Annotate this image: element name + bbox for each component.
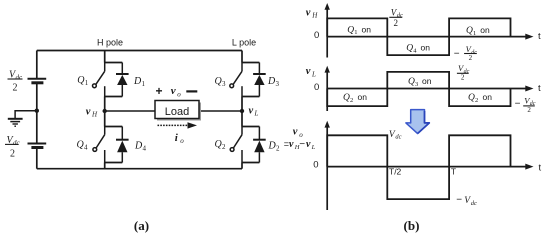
wire H split rail top bbox=[105, 62, 123, 64]
label Q1 on (first) bbox=[347, 24, 371, 36]
label Vdc (vo plot) bbox=[389, 130, 402, 141]
waveform trace vo bbox=[327, 135, 510, 199]
svg-text:T: T bbox=[451, 166, 456, 176]
svg-text:3: 3 bbox=[276, 80, 280, 88]
svg-text:on: on bbox=[362, 24, 372, 34]
axis y (vL plot) bbox=[325, 66, 330, 111]
wire vH to load bbox=[105, 110, 155, 112]
svg-text:H: H bbox=[91, 110, 98, 118]
label D4 bbox=[134, 141, 147, 153]
svg-text:on: on bbox=[483, 92, 493, 102]
diode D2 bbox=[253, 127, 266, 163]
label Q1 on (second) bbox=[466, 25, 490, 37]
wire H pair1 bottom rail bbox=[105, 96, 123, 98]
node vL bbox=[240, 109, 244, 113]
label Vdc/2 (vL plot) bbox=[457, 63, 470, 81]
label vL bbox=[249, 106, 259, 118]
label = vH - vL bbox=[284, 139, 316, 151]
svg-text:on: on bbox=[421, 43, 431, 53]
label D3 bbox=[267, 76, 280, 88]
svg-text:dc: dc bbox=[395, 134, 401, 141]
wire H pair2 top rail bbox=[105, 126, 123, 128]
wire H mid bbox=[104, 97, 106, 127]
axis t (vL plot) bbox=[327, 86, 533, 92]
waveform trace vL bbox=[327, 72, 510, 106]
svg-text:v: v bbox=[86, 106, 91, 117]
label Q3 bbox=[215, 76, 227, 88]
svg-text:−: − bbox=[515, 98, 521, 109]
wire H drop to bus bbox=[104, 163, 106, 169]
svg-text:o: o bbox=[177, 90, 181, 98]
svg-text:T/2: T/2 bbox=[389, 166, 402, 176]
switch Q2 bbox=[230, 127, 242, 163]
diode D4 bbox=[116, 127, 129, 163]
label Q3 on bbox=[408, 76, 432, 88]
svg-text:2: 2 bbox=[469, 54, 473, 62]
svg-text:+: + bbox=[155, 84, 162, 98]
label Q4 on bbox=[406, 43, 430, 55]
arrow io (dashed) bbox=[158, 122, 198, 128]
label Vdc/2 (B2) bbox=[5, 135, 21, 159]
svg-text:(a): (a) bbox=[134, 218, 149, 233]
svg-text:1: 1 bbox=[142, 80, 146, 88]
label D1 bbox=[133, 76, 146, 88]
svg-text:3: 3 bbox=[222, 80, 226, 88]
label D2 bbox=[268, 141, 281, 153]
svg-text:L pole: L pole bbox=[232, 38, 256, 48]
svg-text:2: 2 bbox=[461, 74, 465, 82]
svg-text:−: − bbox=[454, 48, 460, 59]
svg-text:o: o bbox=[180, 137, 184, 145]
wire L split rail top bbox=[242, 62, 259, 64]
wire H drop bbox=[104, 51, 106, 63]
svg-text:L: L bbox=[254, 110, 259, 118]
wire L mid bbox=[241, 97, 243, 127]
svg-text:2: 2 bbox=[10, 148, 15, 159]
svg-text:v: v bbox=[171, 85, 176, 97]
svg-text:0: 0 bbox=[314, 82, 319, 93]
svg-text:dc: dc bbox=[471, 200, 477, 207]
battery B2 Vdc/2 bbox=[28, 144, 47, 148]
blue arrow down bbox=[406, 110, 429, 134]
node battery midpoint bbox=[35, 109, 39, 113]
label Q2 on (first) bbox=[343, 92, 367, 104]
label Q1 bbox=[77, 75, 89, 87]
switch Q3 bbox=[230, 63, 242, 97]
label Q4 bbox=[77, 140, 89, 152]
svg-text:v: v bbox=[306, 7, 311, 18]
axis y (vH plot) bbox=[325, 3, 330, 58]
svg-text:dc: dc bbox=[13, 139, 21, 147]
svg-text:3: 3 bbox=[415, 81, 418, 88]
svg-text:Load: Load bbox=[165, 106, 189, 118]
svg-text:Q: Q bbox=[466, 26, 473, 36]
svg-text:v: v bbox=[306, 139, 311, 150]
svg-text:2: 2 bbox=[527, 106, 531, 114]
svg-text:H: H bbox=[311, 11, 318, 19]
svg-text:1: 1 bbox=[473, 30, 476, 37]
axis t (vH plot) bbox=[327, 34, 533, 40]
ground bbox=[8, 119, 23, 126]
svg-text:−: − bbox=[456, 195, 462, 206]
label -Vdc (vo plot) bbox=[456, 195, 477, 207]
svg-text:2: 2 bbox=[13, 82, 18, 93]
svg-text:Q: Q bbox=[408, 77, 415, 87]
wire to ground bbox=[15, 111, 37, 119]
svg-text:dc: dc bbox=[16, 74, 24, 82]
svg-text:L: L bbox=[311, 144, 316, 151]
diode D1 bbox=[116, 63, 129, 97]
svg-text:−: − bbox=[299, 139, 305, 150]
svg-text:dc: dc bbox=[464, 69, 470, 75]
svg-text:H pole: H pole bbox=[97, 38, 123, 48]
svg-text:v: v bbox=[289, 139, 294, 150]
wire L pair2 top rail bbox=[242, 126, 259, 128]
wire top bus bbox=[37, 50, 242, 52]
label Q2 bbox=[215, 139, 227, 151]
wire L pair2 bottom rail bbox=[242, 162, 259, 164]
svg-text:on: on bbox=[358, 92, 368, 102]
wire bottom bus bbox=[37, 168, 242, 170]
svg-text:1: 1 bbox=[85, 79, 89, 87]
svg-text:on: on bbox=[422, 76, 432, 86]
wire L drop bbox=[241, 51, 243, 63]
svg-text:4: 4 bbox=[143, 145, 147, 153]
svg-text:v: v bbox=[249, 106, 254, 117]
svg-text:4: 4 bbox=[84, 144, 88, 152]
load box bbox=[155, 101, 201, 121]
label vL (plot) bbox=[306, 66, 316, 79]
label vH bbox=[86, 106, 98, 118]
label vH (plot) bbox=[306, 7, 319, 19]
svg-text:(b): (b) bbox=[404, 218, 420, 233]
svg-text:Q: Q bbox=[343, 93, 350, 103]
svg-text:o: o bbox=[299, 131, 303, 139]
H pole branch wires bbox=[105, 51, 123, 169]
waveform trace vH bbox=[327, 18, 510, 55]
label -Vdc/2 (vH plot) bbox=[454, 44, 477, 62]
svg-text:t: t bbox=[538, 31, 541, 42]
svg-text:Q: Q bbox=[406, 44, 413, 54]
svg-text:0: 0 bbox=[314, 30, 319, 41]
svg-text:v: v bbox=[293, 126, 298, 137]
node vH bbox=[103, 109, 107, 113]
label vo (plot) bbox=[293, 126, 304, 139]
svg-text:0: 0 bbox=[313, 159, 318, 170]
wire load to vL bbox=[199, 110, 242, 112]
svg-text:2: 2 bbox=[222, 143, 226, 151]
wire left battery column bbox=[36, 51, 38, 79]
label io bbox=[175, 132, 185, 145]
wire L pair1 bottom rail bbox=[242, 96, 259, 98]
svg-text:2: 2 bbox=[350, 97, 353, 104]
axis y (vo plot) bbox=[325, 121, 330, 210]
svg-text:2: 2 bbox=[475, 97, 478, 104]
svg-text:1: 1 bbox=[354, 29, 357, 36]
L pole branch wires bbox=[242, 51, 259, 169]
label Q2 on (second) bbox=[468, 92, 492, 104]
switch Q4 bbox=[93, 127, 105, 163]
svg-text:L: L bbox=[311, 71, 316, 79]
wire L drop to bus bbox=[241, 163, 243, 169]
label Vdc/2 (vH plot) bbox=[389, 7, 403, 28]
label Vdc/2 (B1) bbox=[8, 70, 24, 94]
battery B1 Vdc/2 bbox=[28, 79, 47, 83]
axis t (vo plot) bbox=[327, 164, 533, 170]
diode D3 bbox=[253, 63, 266, 97]
svg-text:2: 2 bbox=[276, 145, 280, 153]
svg-text:t: t bbox=[538, 83, 541, 94]
svg-text:on: on bbox=[480, 25, 490, 35]
wire H pair2 bottom rail bbox=[105, 162, 123, 164]
label + vo - bbox=[155, 84, 197, 99]
svg-text:2: 2 bbox=[394, 18, 399, 28]
svg-text:t: t bbox=[539, 162, 542, 173]
svg-text:Q: Q bbox=[468, 93, 475, 103]
switch Q1 bbox=[93, 63, 105, 97]
svg-text:v: v bbox=[306, 66, 311, 77]
svg-text:Q: Q bbox=[347, 25, 354, 35]
label -Vdc/2 (vL plot) bbox=[515, 95, 536, 114]
